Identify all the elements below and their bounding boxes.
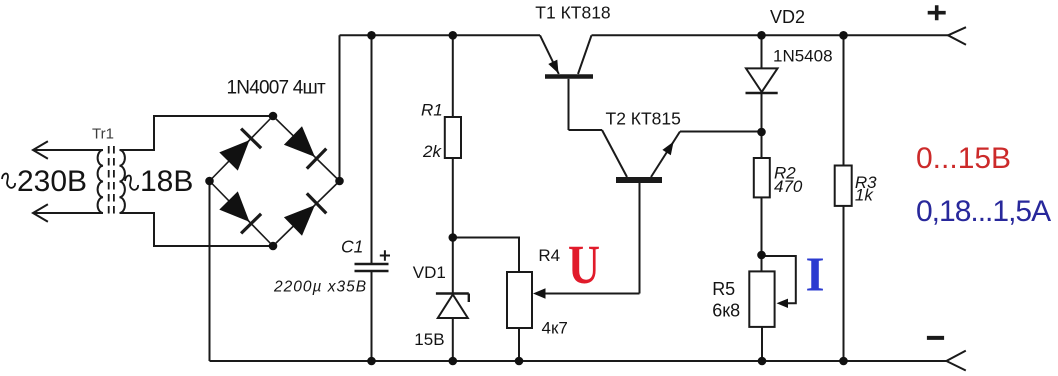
transformer Tr1 primary winding xyxy=(98,150,103,213)
svg-text:230В: 230В xyxy=(17,165,87,198)
junction R5 bottom xyxy=(758,357,767,366)
junction R3 bottom xyxy=(839,357,848,366)
wire R5 top xyxy=(761,255,763,271)
svg-text:0,18...1,5А: 0,18...1,5А xyxy=(916,195,1051,228)
wire VD2 top xyxy=(761,35,763,68)
capacitor C1 xyxy=(355,264,389,271)
wire R1 bottom xyxy=(452,158,454,238)
svg-text:R1: R1 xyxy=(421,101,443,120)
AC input terminal arrow top xyxy=(33,141,48,158)
svg-text:6к8: 6к8 xyxy=(712,301,740,321)
svg-text:0...15В: 0...15В xyxy=(916,142,1011,175)
svg-text:18В: 18В xyxy=(140,165,193,198)
bottom rail negative xyxy=(210,360,947,362)
wire R3 top xyxy=(843,35,845,165)
wire R5 bottom xyxy=(761,327,763,361)
C1 polarity plus xyxy=(380,250,390,260)
svg-text:T2 КТ815: T2 КТ815 xyxy=(606,108,681,128)
svg-text:1N4007 4шт: 1N4007 4шт xyxy=(227,78,326,99)
svg-text:1k: 1k xyxy=(855,186,874,205)
AC input terminal arrow bottom xyxy=(33,204,48,221)
bridge edge bottom to right xyxy=(273,181,340,246)
zener diode VD1 xyxy=(436,294,469,319)
wire T2 emitter to VD2 node xyxy=(680,131,762,133)
top rail unregulated xyxy=(340,34,541,36)
wire R1 top xyxy=(452,35,454,117)
wire R4 wiper to T2 base xyxy=(639,183,641,294)
negative output terminal xyxy=(946,351,965,371)
wire bridge negative node to bottom rail xyxy=(209,181,211,361)
svg-text:R4: R4 xyxy=(538,246,560,265)
svg-text:T1 КТ818: T1 КТ818 xyxy=(535,3,610,23)
junction C1 top xyxy=(367,31,376,40)
top rail regulated xyxy=(592,34,949,36)
wire secondary top to bridge AC node xyxy=(120,116,274,150)
svg-text:2200µ x35В: 2200µ x35В xyxy=(273,279,367,296)
positive output terminal xyxy=(948,27,966,45)
wire R4 bottom xyxy=(518,328,520,361)
potentiometer R4 xyxy=(507,272,532,328)
resistor R1 xyxy=(445,117,461,158)
svg-text:470: 470 xyxy=(774,177,803,196)
transformer Tr1 core xyxy=(109,146,114,218)
node bridge right positive xyxy=(335,177,344,186)
junction R1 VD1 R4 node xyxy=(449,233,458,242)
wire AC input top xyxy=(33,149,103,151)
bridge edge left to bottom xyxy=(210,181,274,246)
label minus xyxy=(927,336,944,340)
junction R3 top xyxy=(839,31,848,40)
wire R2 top xyxy=(761,132,763,158)
svg-text:Tr1: Tr1 xyxy=(92,126,114,143)
wire C1 top xyxy=(371,35,373,264)
junction VD1 bottom xyxy=(449,357,458,366)
junction R1 top xyxy=(449,31,458,40)
label plus xyxy=(928,5,946,20)
wire T1 base to T2 collector xyxy=(569,129,603,131)
svg-text:C1: C1 xyxy=(341,236,363,256)
bridge diode D4 bottom to right xyxy=(284,193,326,235)
svg-text:VD1: VD1 xyxy=(413,263,446,282)
junction R2 R5 node xyxy=(757,251,766,260)
wire VD1 bottom xyxy=(452,318,454,361)
node bridge left negative xyxy=(205,177,214,186)
label ~230V AC xyxy=(2,165,87,198)
bridge diode D1 left to top xyxy=(219,129,261,171)
R5 wiper link xyxy=(762,256,796,308)
bridge diode D3 left to bottom xyxy=(219,191,261,233)
bridge edge top to right xyxy=(273,116,340,181)
wire secondary bottom to bridge AC node xyxy=(120,213,274,246)
transistor T1 KT818 xyxy=(540,35,593,130)
resistor R2 xyxy=(754,158,770,197)
resistor R3 xyxy=(835,166,852,206)
wire VD2 bottom xyxy=(761,93,763,132)
potentiometer R5 xyxy=(749,271,774,327)
svg-text:VD2: VD2 xyxy=(770,7,805,27)
junction C1 bottom xyxy=(367,357,376,366)
svg-text:R5: R5 xyxy=(712,279,735,299)
transformer Tr1 secondary winding xyxy=(120,150,125,213)
svg-text:15В: 15В xyxy=(414,330,444,349)
wire VD1 top xyxy=(452,238,454,295)
wire R3 bottom xyxy=(843,206,845,361)
svg-text:4к7: 4к7 xyxy=(542,319,568,338)
transistor T2 KT815 xyxy=(602,130,680,200)
junction R4 bottom xyxy=(515,357,524,366)
label ~18V AC xyxy=(125,165,193,198)
bridge diode D2 top to right xyxy=(284,126,326,168)
svg-text:U: U xyxy=(568,234,600,295)
svg-text:I: I xyxy=(806,246,825,301)
wire bridge positive node to top rail xyxy=(339,35,341,181)
wire node to R4 top xyxy=(453,238,519,273)
svg-text:2k: 2k xyxy=(422,142,442,161)
wire AC input bottom xyxy=(33,212,103,214)
wire C1 bottom xyxy=(371,271,373,361)
junction VD2 T2 R2 node xyxy=(757,128,766,137)
wire R2 bottom xyxy=(761,197,763,255)
bridge edge left to top xyxy=(210,116,274,181)
node bridge top AC xyxy=(269,112,278,121)
diode VD2 xyxy=(746,68,778,93)
node bridge bottom AC xyxy=(269,242,278,251)
svg-text:1N5408: 1N5408 xyxy=(773,47,833,66)
R4 wiper arrow xyxy=(533,288,640,298)
junction VD2 top xyxy=(757,31,766,40)
